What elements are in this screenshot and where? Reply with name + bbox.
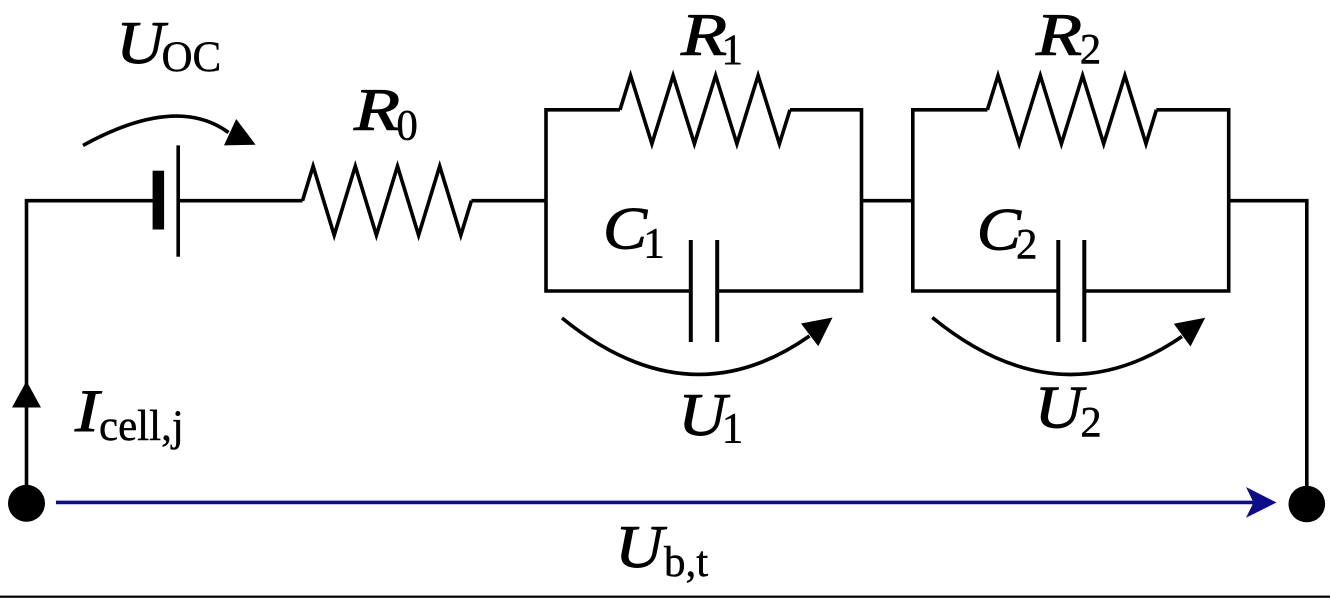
wire box2 to right branch down to dot	[1229, 201, 1307, 504]
arrowhead of U_OC arc	[224, 119, 256, 145]
arrowhead of U1 arc	[801, 318, 833, 347]
node dot right	[1289, 486, 1326, 523]
svg-text:1: 1	[722, 27, 744, 74]
svg-text:R: R	[353, 76, 400, 143]
resistor R1	[620, 76, 790, 144]
battery thick plate	[153, 171, 165, 230]
RC box 2 outline	[913, 110, 1059, 291]
node dot left	[8, 485, 45, 522]
svg-text:U: U	[615, 514, 668, 580]
svg-text:b,t: b,t	[664, 539, 708, 586]
capacitor C2	[1056, 240, 1060, 342]
arc U2 under C2	[932, 318, 1182, 375]
svg-text:2: 2	[1080, 399, 1102, 446]
svg-text:I: I	[74, 378, 102, 444]
resistor R2	[987, 76, 1156, 144]
RC box 1 outline	[546, 110, 691, 291]
svg-text:0: 0	[396, 103, 418, 150]
svg-text:C: C	[603, 195, 648, 262]
wire left branch: dot up to corner, across to battery	[27, 201, 155, 503]
arc U_OC over battery	[83, 116, 229, 145]
blue arrowhead	[1246, 487, 1277, 518]
blue wire U_b,t	[56, 501, 1254, 505]
bottom rule	[0, 596, 1330, 598]
current arrow on left wire	[12, 381, 41, 408]
resistor R0	[303, 166, 472, 235]
svg-text:cell,j: cell,j	[99, 403, 184, 450]
svg-text:2: 2	[1080, 26, 1102, 73]
wire R0 to box1	[471, 199, 546, 203]
battery thin plate	[176, 145, 180, 256]
svg-text:OC: OC	[162, 34, 222, 81]
capacitor C1	[689, 240, 693, 342]
svg-text:1: 1	[722, 406, 744, 453]
wire box1 to box2	[862, 199, 913, 203]
svg-text:2: 2	[1016, 222, 1038, 269]
svg-text:1: 1	[643, 220, 665, 267]
wire battery to R0	[178, 199, 303, 203]
svg-text:C: C	[977, 196, 1022, 263]
arrowhead of U2 arc	[1174, 318, 1205, 347]
arc U1 under C1	[562, 318, 810, 374]
svg-text:R: R	[1035, 2, 1082, 69]
svg-text:R: R	[680, 1, 727, 68]
svg-text:U: U	[1035, 374, 1088, 440]
